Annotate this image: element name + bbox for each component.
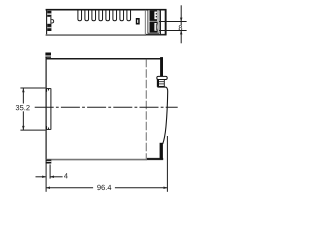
dim 96.4 dimension line <box>46 186 167 189</box>
terminal block box <box>148 10 159 33</box>
dim 35.2 extension line bottom <box>20 129 45 131</box>
vent slot 5 <box>106 11 110 21</box>
dim 4 dimension line <box>36 176 63 179</box>
vent slot 4 <box>99 11 103 21</box>
latch foot <box>160 143 163 159</box>
dim 4 label <box>64 173 68 178</box>
vent slot 2 <box>85 11 89 21</box>
dim 8 extension line bottom <box>159 30 186 32</box>
dim 8 dimension line <box>180 5 183 43</box>
top view DIN bracket knob <box>51 20 53 23</box>
dim 8 extension line top <box>159 21 186 23</box>
side view left edge <box>45 53 47 159</box>
center line <box>35 106 178 108</box>
hidden edge dashed line <box>145 59 147 159</box>
left extension line lower <box>45 159 47 191</box>
dim 35.2 label <box>16 105 30 110</box>
terminal screw bottom <box>150 22 158 33</box>
side view DIN bracket edge <box>50 88 52 129</box>
panel separator line <box>144 10 146 35</box>
dim 4 right extension line <box>49 164 51 178</box>
dim 96.4 label <box>97 185 111 190</box>
vent slot 6 <box>113 11 117 21</box>
side view bottom edge <box>46 159 147 161</box>
top view outline <box>46 9 167 35</box>
top view right edge band <box>165 9 167 35</box>
side view DIN bracket top hook <box>47 88 51 91</box>
top view DIN bracket side edge <box>50 17 52 24</box>
vent slot 3 <box>92 11 96 21</box>
side view top edge <box>46 58 161 60</box>
indicator screw <box>136 18 140 25</box>
latch ledge and bulge <box>157 87 167 144</box>
latch knob <box>157 76 167 79</box>
top view DIN bracket bottom tab <box>47 24 51 31</box>
vent slot 1 <box>78 11 82 21</box>
latch grip block <box>157 80 164 87</box>
right extension line lower <box>166 136 168 192</box>
vent slot 8 <box>127 11 131 21</box>
side view bottom edge dark right <box>147 158 163 160</box>
dim 35.2 extension line top <box>20 87 45 89</box>
side view top-left tab <box>45 53 51 58</box>
terminal screw top <box>150 10 158 21</box>
latch slider bar <box>160 57 163 76</box>
top view DIN bracket top tab <box>47 11 51 17</box>
dim 8 label <box>179 25 183 30</box>
side view DIN bracket bottom hook <box>47 126 51 130</box>
dim 35.2 dimension line <box>22 88 25 130</box>
side view bottom-left tab <box>46 160 52 164</box>
terminal cover line <box>160 10 162 35</box>
vent slot 7 <box>120 11 124 21</box>
